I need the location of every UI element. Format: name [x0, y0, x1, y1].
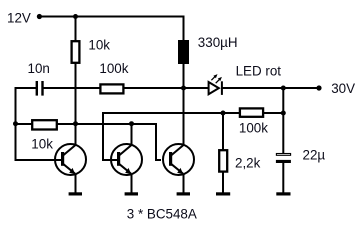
node junction Q2 collector	[129, 121, 134, 126]
svg-text:10k: 10k	[31, 136, 53, 151]
svg-text:10n: 10n	[28, 61, 50, 76]
svg-text:100k: 100k	[99, 61, 128, 76]
node junction LED cathode rail / output	[281, 86, 286, 91]
node terminal 12V	[37, 14, 42, 19]
resistor R2 100k horizontal top	[100, 84, 123, 93]
LED D1	[209, 81, 222, 95]
ground R5 2,2k	[216, 192, 230, 195]
node terminal 30V	[316, 85, 321, 90]
svg-text:2,2k: 2,2k	[235, 156, 261, 171]
svg-text:LED rot: LED rot	[236, 64, 282, 79]
resistor R5 2,2k vertical	[219, 150, 227, 171]
ground Q1 emitter	[69, 192, 82, 195]
node junction L1 / LED / Q3 collector	[181, 86, 186, 91]
node junction x283 y112	[281, 111, 286, 116]
transistor Q1	[55, 124, 86, 193]
wire T1 base horizontal	[16, 159, 64, 161]
wire 2.2k bottom to ground	[222, 172, 224, 193]
wire node C3 to LED anode	[184, 87, 209, 89]
wire 12V feed down to R 10k vertical	[75, 17, 77, 42]
svg-text:100k: 100k	[239, 121, 268, 136]
transistor Q3	[163, 144, 194, 193]
LED emission arrow 2	[216, 77, 222, 83]
wire inductor bottom to node C3	[183, 63, 185, 89]
capacitor C2 22u electrolytic	[276, 154, 290, 156]
wire 22u bottom to ground	[282, 162, 284, 193]
wire node C3 down to Q3 collector	[183, 88, 185, 146]
wire capacitor C1 right to resistor R2	[43, 87, 100, 89]
svg-text:330µH: 330µH	[198, 35, 238, 50]
wire y88 rail left corner	[16, 88, 37, 161]
wire top rail 12V	[39, 16, 184, 18]
svg-text:22µ: 22µ	[303, 148, 326, 163]
wire 2.2k top lead from y112 node	[222, 113, 224, 150]
wire T2 collector up to y124 line	[131, 124, 133, 146]
wire node 30V down through y112 node to 22u cap	[282, 88, 284, 153]
capacitor C1 10n plates	[36, 81, 44, 96]
svg-text:12V: 12V	[7, 10, 31, 25]
wire LED cathode to 30V terminal	[222, 87, 319, 89]
node junction top rail / R1	[73, 14, 78, 19]
node junction R1/R3/Q1 collector	[73, 121, 78, 126]
ground C2 22u	[276, 192, 290, 195]
svg-text:30V: 30V	[331, 81, 355, 96]
LED emission arrow 1	[211, 74, 217, 80]
ground Q2 emitter	[125, 192, 138, 195]
wire y124 line: node B1 to 10k-h	[16, 123, 33, 125]
wire 100k-b right lead to node x283	[264, 112, 284, 114]
resistor R3 10k horizontal left	[32, 120, 57, 129]
node junction left B1	[13, 121, 18, 126]
svg-text:10k: 10k	[88, 37, 110, 52]
wire R2 right to node C3	[124, 87, 184, 89]
wire 10k-h to collector node, over to T3 base corner	[57, 124, 161, 160]
wire 10k vertical bottom down to node at y124	[75, 63, 77, 125]
wire T2 base route corner x103	[103, 113, 239, 160]
resistor R1 10k vertical	[72, 41, 80, 63]
wire top rail corner down to inductor	[183, 16, 185, 42]
transistor Q2	[111, 144, 142, 193]
inductor L1 330uH solid bar	[178, 40, 189, 64]
resistor R4 100k horizontal bottom	[240, 108, 263, 116]
svg-text:3 * BC548A: 3 * BC548A	[127, 206, 197, 221]
ground Q3 emitter	[177, 192, 190, 195]
node junction R5/R4	[221, 111, 226, 116]
